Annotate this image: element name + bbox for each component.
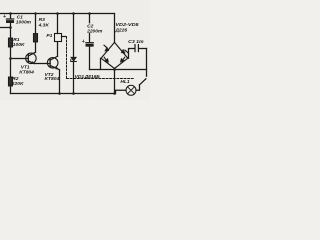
wire bottom rail bbox=[11, 93, 116, 95]
paper noise bbox=[0, 0, 1, 1]
dashed mechanical link horizontal bbox=[67, 78, 135, 80]
wire C1 to R1 bbox=[10, 28, 12, 39]
junction dots bbox=[9, 12, 116, 95]
capacitor C3 bbox=[129, 45, 147, 59]
relay coil P1 bbox=[55, 34, 62, 42]
wire rail corner drop to bridge top bbox=[114, 14, 116, 43]
wire top rail bbox=[0, 13, 115, 15]
wire VT1 collector to R3 bbox=[35, 42, 37, 52]
wire P1 top lead bbox=[57, 14, 59, 34]
wire bottom rail bend to lamp bbox=[116, 90, 127, 93]
capacitor C1 bbox=[6, 14, 13, 28]
wire bridge left corner drop bbox=[100, 58, 102, 69]
wire VT1 emitter to VT2 base bbox=[34, 63, 50, 65]
wire lamp right to contact bbox=[136, 85, 140, 90]
wire base of VT1 bbox=[11, 58, 29, 60]
wire output minus stub bbox=[0, 27, 11, 29]
zener diode VD1 bbox=[71, 14, 77, 94]
wire R1 bottom to divider node bbox=[10, 47, 12, 59]
wire contact fixed terminal from C3 bbox=[146, 49, 148, 77]
wire relay mechanical tick bbox=[62, 36, 66, 38]
capacitor C2 bbox=[86, 14, 93, 70]
wire divider node to R2 bbox=[10, 59, 12, 78]
diode VD4 bottom-left bbox=[104, 57, 109, 62]
wire R3 top lead bbox=[35, 14, 37, 34]
dashed mechanical link vertical bbox=[66, 37, 68, 79]
transistor VT1 bbox=[26, 52, 37, 63]
label C2 bbox=[87, 23, 100, 32]
wire bridge bottom drop bbox=[114, 69, 116, 94]
wire lower AC bus bbox=[90, 69, 147, 71]
diode VD3 top-right bbox=[121, 49, 128, 53]
relay contact P1.1 blade bbox=[139, 79, 146, 85]
resistor R2 bbox=[8, 77, 12, 86]
wire VT2 emitter drop bbox=[59, 70, 61, 94]
transistor VT2 bbox=[47, 56, 59, 69]
diode VD5 bottom-right bbox=[120, 57, 125, 62]
lamp HL1 bbox=[126, 85, 136, 95]
resistor R1 bbox=[8, 38, 12, 47]
wire R2 bottom lead bbox=[10, 86, 12, 94]
wire VT2 collector to relay coil bbox=[57, 42, 59, 57]
resistor R3 bbox=[33, 34, 37, 43]
diode VD2 top-left bbox=[104, 45, 109, 51]
diode bridge VD2-VD5 diamond bbox=[101, 42, 128, 68]
